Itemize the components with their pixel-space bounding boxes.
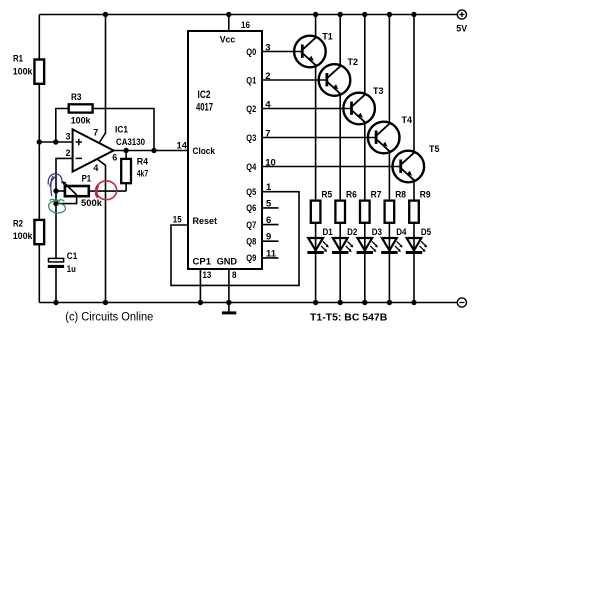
wire CP1 pin 13 to 0V rail bbox=[199, 269, 201, 303]
wire R1 to node A bbox=[38, 84, 40, 142]
wire R7/D3 column bbox=[364, 223, 366, 303]
resistor R7 bbox=[360, 190, 381, 223]
resistor R6 bbox=[335, 190, 356, 223]
node GND rail junction bbox=[226, 300, 231, 305]
svg-text:P1: P1 bbox=[82, 174, 92, 185]
node D5 rail junction bbox=[411, 300, 416, 305]
svg-text:Q2: Q2 bbox=[246, 104, 256, 115]
wire T3 collector to +5V rail bbox=[364, 15, 366, 95]
svg-text:CP1: CP1 bbox=[193, 257, 212, 268]
node D2 rail junction bbox=[338, 300, 343, 305]
svg-text:2: 2 bbox=[66, 148, 71, 159]
IC IC2 4017 body bbox=[188, 31, 262, 269]
svg-text:3: 3 bbox=[66, 132, 71, 143]
svg-text:Q5: Q5 bbox=[246, 187, 257, 198]
svg-text:13: 13 bbox=[203, 270, 212, 281]
svg-text:Q1: Q1 bbox=[246, 75, 257, 86]
node P1 wiper tie bbox=[53, 201, 58, 206]
transistor T5 bbox=[393, 144, 441, 182]
node A (R1/R2 divider) bbox=[37, 139, 42, 144]
svg-text:7: 7 bbox=[93, 128, 98, 139]
svg-text:R1: R1 bbox=[13, 54, 24, 65]
wire Q0 to T1 base bbox=[262, 51, 302, 53]
wire op-amp output to IC2 clock bbox=[114, 150, 188, 152]
wire T2 collector to +5V rail bbox=[339, 15, 341, 67]
node pin16 rail junction bbox=[226, 12, 231, 17]
node pin7 rail junction bbox=[103, 12, 108, 17]
node T5 collector rail junction bbox=[411, 12, 416, 17]
svg-text:C1: C1 bbox=[67, 251, 78, 262]
wire node A to R2 bbox=[38, 142, 40, 221]
wire R3 right lead to output node bbox=[93, 109, 154, 151]
svg-text:Q7: Q7 bbox=[246, 220, 256, 231]
wire pin 16 Vcc lead bbox=[228, 15, 230, 32]
node D3 rail junction bbox=[362, 300, 367, 305]
resistor R2 bbox=[13, 219, 44, 245]
svg-text:15: 15 bbox=[173, 215, 182, 226]
svg-text:R5: R5 bbox=[321, 190, 332, 201]
node output/R4 junction bbox=[123, 148, 128, 153]
svg-text:R7: R7 bbox=[371, 190, 382, 201]
wire T5 collector to +5V rail bbox=[413, 15, 415, 153]
svg-text:R3: R3 bbox=[71, 92, 82, 103]
capacitor C1 bbox=[48, 251, 78, 275]
wire T4 collector to +5V rail bbox=[388, 15, 390, 124]
wire Q1 to T2 base bbox=[262, 79, 327, 81]
svg-text:IC2: IC2 bbox=[198, 89, 211, 101]
wire R9/D5 column bbox=[413, 223, 415, 303]
svg-text:D4: D4 bbox=[396, 227, 407, 238]
svg-text:IC1: IC1 bbox=[115, 125, 129, 136]
wire Q6 stub bbox=[262, 207, 279, 209]
node D1 rail junction bbox=[313, 300, 318, 305]
wire R4 bottom lead bbox=[125, 183, 127, 191]
svg-text:8: 8 bbox=[232, 270, 237, 281]
resistor R8 bbox=[385, 190, 406, 223]
wire T1 collector to +5V rail bbox=[315, 15, 317, 38]
potentiometer P1 bbox=[62, 174, 103, 210]
wire R2 to bottom rail bbox=[38, 244, 40, 302]
node B (feedback tap on + input) bbox=[53, 139, 58, 144]
node T2 collector rail junction bbox=[338, 12, 343, 17]
svg-text:R6: R6 bbox=[346, 190, 357, 201]
svg-text:100k: 100k bbox=[71, 116, 91, 127]
svg-text:R8: R8 bbox=[395, 190, 406, 201]
node D4 rail junction bbox=[387, 300, 392, 305]
wire Q7 stub bbox=[262, 224, 279, 226]
svg-text:4: 4 bbox=[93, 163, 99, 174]
svg-text:R9: R9 bbox=[420, 190, 431, 201]
svg-text:CA3130: CA3130 bbox=[116, 137, 145, 148]
svg-text:T1-T5: BC 547B: T1-T5: BC 547B bbox=[310, 312, 388, 324]
wire R3 left lead bbox=[56, 109, 69, 143]
svg-text:5V: 5V bbox=[456, 24, 467, 35]
node CP1 rail junction bbox=[198, 300, 203, 305]
node output/R3 junction bbox=[151, 148, 156, 153]
wire R8/D4 column bbox=[388, 223, 390, 303]
svg-text:T4: T4 bbox=[402, 115, 413, 126]
transistor T2 bbox=[319, 57, 358, 96]
wire left column top (rail to R1) bbox=[38, 15, 40, 61]
LED D2 bbox=[332, 227, 357, 253]
svg-text:500k: 500k bbox=[81, 198, 103, 209]
ground bbox=[222, 311, 236, 314]
op-amp IC1 CA3130 bbox=[73, 125, 145, 172]
resistor R9 bbox=[409, 190, 430, 223]
svg-text:4k7: 4k7 bbox=[137, 169, 149, 180]
wire R5/D1 column bbox=[315, 223, 317, 303]
svg-text:Q9: Q9 bbox=[246, 253, 256, 264]
svg-text:Clock: Clock bbox=[193, 146, 216, 157]
node C1 ground junction bbox=[53, 300, 58, 305]
terminal 0V (minus) bbox=[457, 298, 466, 307]
wire T2 emitter down to R6 bbox=[339, 95, 341, 202]
svg-text:4017: 4017 bbox=[196, 102, 213, 114]
wire + input (node A to op-amp pin 3) bbox=[39, 141, 72, 143]
node P1 left end bbox=[53, 188, 58, 193]
svg-text:1u: 1u bbox=[67, 264, 76, 275]
node T3 collector rail junction bbox=[362, 12, 367, 17]
wire op-amp pin 7 to +5V rail bbox=[99, 15, 106, 144]
transistor T3 bbox=[343, 86, 383, 124]
svg-text:Reset: Reset bbox=[193, 216, 218, 227]
wire C1 to bottom rail bbox=[55, 268, 57, 303]
svg-text:6: 6 bbox=[112, 153, 117, 164]
wire R6/D2 column bbox=[339, 223, 341, 303]
svg-text:T3: T3 bbox=[373, 86, 384, 97]
wire Q3 to T4 base bbox=[262, 137, 376, 139]
node T4 collector rail junction bbox=[387, 12, 392, 17]
wire GND pin 8 lead bbox=[228, 269, 230, 312]
resistor R4 bbox=[121, 157, 148, 184]
wire T3 emitter down to R7 bbox=[364, 123, 366, 201]
svg-text:R4: R4 bbox=[137, 157, 149, 168]
svg-text:Vcc: Vcc bbox=[220, 35, 236, 46]
svg-text:Q8: Q8 bbox=[246, 237, 256, 248]
wire T4 emitter down to R8 bbox=[388, 152, 390, 201]
svg-text:D2: D2 bbox=[347, 227, 357, 238]
svg-text:D5: D5 bbox=[421, 227, 432, 238]
svg-text:GND: GND bbox=[217, 257, 238, 268]
annotation green scribble bbox=[49, 199, 66, 213]
wire 0V bottom rail bbox=[39, 302, 457, 304]
node pin4 rail junction bbox=[103, 300, 108, 305]
wire Q8 stub bbox=[262, 240, 279, 242]
wire - input (pin 2 down to P1/C1) bbox=[56, 158, 73, 258]
svg-text:Q0: Q0 bbox=[246, 47, 256, 58]
wire +5V top rail bbox=[39, 14, 457, 16]
wire P1 left lead bbox=[56, 190, 65, 192]
svg-text:14: 14 bbox=[177, 141, 188, 152]
wire Q5 to reset loop bbox=[171, 192, 299, 286]
wire Q9 stub bbox=[262, 257, 279, 259]
LED D5 bbox=[406, 227, 432, 253]
svg-text:(c) Circuits Online: (c) Circuits Online bbox=[65, 311, 153, 323]
svg-text:100k: 100k bbox=[13, 231, 33, 242]
transistor T4 bbox=[368, 115, 413, 153]
wire T1 emitter down to R5 bbox=[315, 66, 317, 201]
svg-text:Q4: Q4 bbox=[246, 162, 257, 173]
svg-text:T1: T1 bbox=[322, 31, 333, 42]
svg-text:T2: T2 bbox=[348, 57, 359, 68]
svg-text:D1: D1 bbox=[323, 227, 334, 238]
wire P1 right to R4 bottom bbox=[89, 190, 126, 192]
annotation blue scribble bbox=[48, 174, 62, 197]
resistor R5 bbox=[311, 190, 333, 223]
LED D1 bbox=[307, 227, 333, 253]
transistor T1 bbox=[294, 31, 333, 67]
wire Q2 to T3 base bbox=[262, 108, 352, 110]
svg-text:Q6: Q6 bbox=[246, 203, 256, 214]
annotation red circle bbox=[96, 181, 117, 200]
svg-text:Q3: Q3 bbox=[246, 133, 256, 144]
wire R4 top lead bbox=[125, 151, 127, 159]
node T1 collector rail junction bbox=[313, 12, 318, 17]
resistor R1 bbox=[13, 54, 44, 84]
LED D3 bbox=[357, 227, 382, 253]
wire P1 wiper bottom tie bbox=[56, 196, 77, 204]
svg-text:T5: T5 bbox=[429, 144, 440, 155]
LED D4 bbox=[381, 227, 407, 253]
wire Q4 to T5 base bbox=[262, 166, 401, 168]
svg-text:R2: R2 bbox=[13, 219, 23, 230]
terminal +5V bbox=[456, 10, 467, 35]
svg-text:100k: 100k bbox=[13, 67, 33, 78]
wire T5 emitter down to R9 bbox=[413, 181, 415, 201]
wire op-amp pin 4 to 0V rail bbox=[98, 159, 106, 302]
svg-text:16: 16 bbox=[241, 20, 250, 31]
resistor R3 bbox=[69, 92, 93, 127]
svg-text:D3: D3 bbox=[372, 227, 382, 238]
